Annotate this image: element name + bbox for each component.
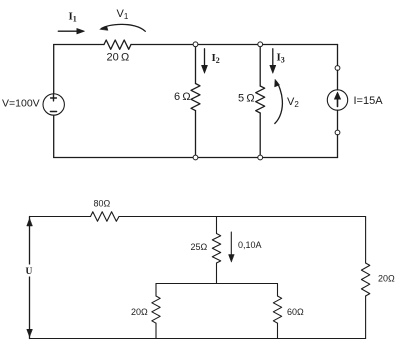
node circle bottom terminal of current source xyxy=(335,130,340,135)
svg-text:25Ω: 25Ω xyxy=(191,242,208,252)
arrow U (left vertical with double arrowheads) xyxy=(29,217,31,339)
wire: 6ohm branch upper xyxy=(195,47,197,84)
label U (with white backing) xyxy=(23,265,35,277)
arrow V2 (curved arc right of 5ohm) xyxy=(275,82,283,124)
resistor R 5ohm (zigzag) xyxy=(256,86,265,113)
resistor R 20ohm inner-left (zigzag) xyxy=(152,296,160,323)
wire: between source circle and bottom terminal xyxy=(337,110,339,130)
wire: circuit1 left vertical above source xyxy=(53,45,55,94)
arrow 0,10A (current down beside 25ohm) xyxy=(230,232,232,256)
voltage source V=100V circle xyxy=(43,94,64,115)
resistor R 6ohm (zigzag) xyxy=(191,84,200,111)
svg-text:20Ω: 20Ω xyxy=(131,307,148,317)
wire: circuit2 top wire right segment xyxy=(119,216,366,218)
node circle top of 5ohm branch xyxy=(258,42,263,47)
resistor R 60ohm inner-right (zigzag) xyxy=(273,296,281,323)
wire: 25ohm branch lower xyxy=(216,263,218,284)
current source I=15A circle xyxy=(327,90,347,110)
wire: circuit2 bottom wire xyxy=(30,338,366,340)
wire: inner rectangle top wire xyxy=(156,283,278,285)
wire: circuit1 top wire left segment xyxy=(54,44,104,46)
resistor R 20ohm (zigzag) xyxy=(104,40,131,49)
svg-text:I=15A: I=15A xyxy=(354,95,384,107)
arrow I2 (downward beside 6ohm) xyxy=(204,49,206,67)
wire: circuit2 right vertical upper xyxy=(365,217,367,264)
svg-text:0,10A: 0,10A xyxy=(238,240,262,250)
current source arrow (up) xyxy=(337,96,339,107)
node circle top of 6ohm branch xyxy=(193,42,198,47)
arrow V1 (curved arc over 20ohm) xyxy=(101,24,145,31)
svg-text:20 Ω: 20 Ω xyxy=(107,52,130,64)
node circle top terminal of current source xyxy=(335,66,340,71)
wire: 5ohm branch lower xyxy=(259,113,261,156)
node circle bottom of 5ohm branch xyxy=(258,155,263,160)
wire: current source branch upper xyxy=(337,45,339,66)
arrow I1 (current direction top-left) xyxy=(58,30,80,32)
node circle bottom of 6ohm branch xyxy=(193,155,198,160)
wire: 6ohm branch lower xyxy=(195,111,197,156)
resistor R 20ohm right (zigzag) xyxy=(361,263,369,296)
voltage source plus sign xyxy=(51,95,57,101)
wire: circuit1 top wire right segment xyxy=(131,44,338,46)
svg-text:5 Ω: 5 Ω xyxy=(238,93,255,105)
wire: inner-left branch lower xyxy=(155,323,157,338)
svg-text:20Ω: 20Ω xyxy=(378,274,395,284)
wire: circuit1 left vertical below source xyxy=(53,115,55,157)
svg-text:60Ω: 60Ω xyxy=(287,307,304,317)
resistor R 80ohm (zigzag) xyxy=(91,212,120,222)
svg-text:V=100V: V=100V xyxy=(2,98,40,110)
wire: 5ohm branch upper xyxy=(259,47,261,87)
arrow I3 (downward beside 5ohm) xyxy=(272,49,274,67)
wire: inner-left branch upper xyxy=(155,284,157,297)
wire: circuit2 top wire left segment xyxy=(30,216,91,218)
svg-text:6 Ω: 6 Ω xyxy=(174,91,191,103)
wire: inner-right branch lower xyxy=(277,323,279,338)
svg-text:80Ω: 80Ω xyxy=(94,199,111,209)
voltage source minus sign xyxy=(50,111,56,113)
resistor R 25ohm (zigzag) xyxy=(212,234,220,264)
wire: between top terminal and source circle xyxy=(337,70,339,90)
wire: current source branch lower xyxy=(337,135,339,158)
wire: inner-right branch upper xyxy=(277,284,279,297)
svg-text:U: U xyxy=(26,267,33,277)
wire: circuit1 bottom wire xyxy=(54,157,338,159)
wire: circuit2 right vertical lower xyxy=(365,296,367,339)
wire: 25ohm branch upper xyxy=(216,217,218,234)
